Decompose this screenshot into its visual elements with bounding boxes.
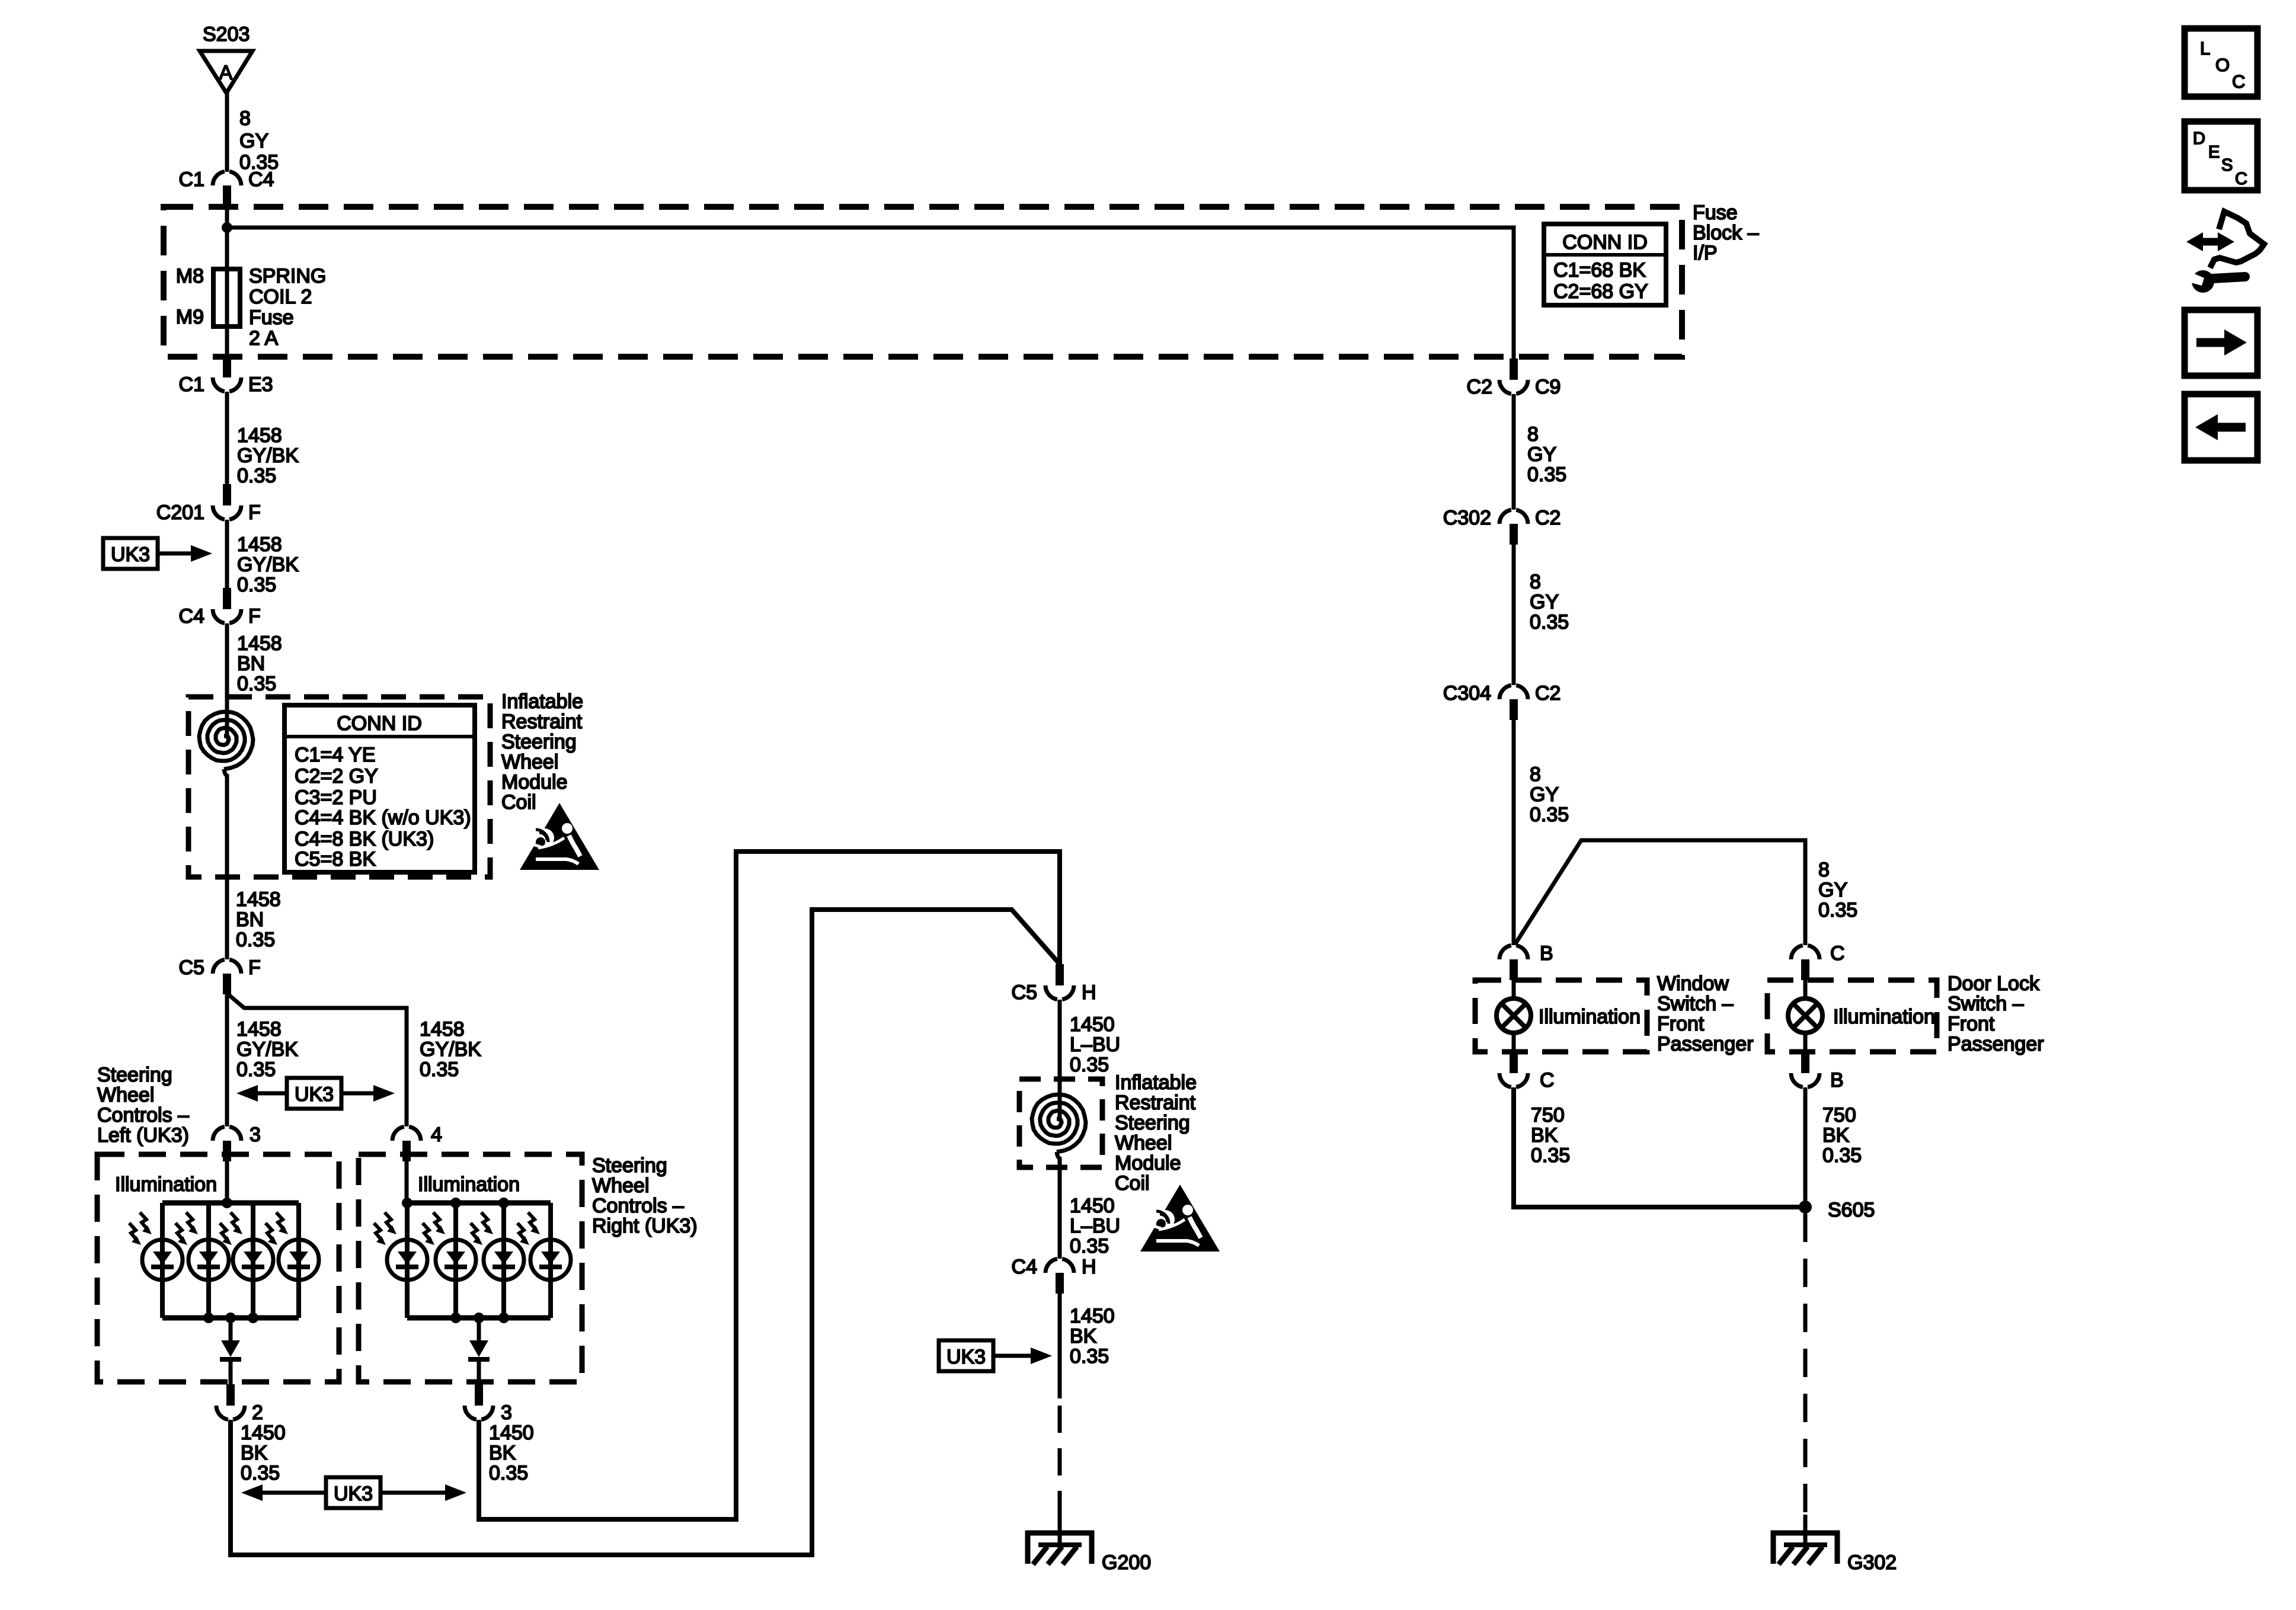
svg-text:Fuse: Fuse <box>249 306 294 329</box>
svg-text:O: O <box>2215 55 2230 75</box>
UK3 flag with arrow (middle) <box>939 1340 993 1371</box>
svg-text:C304: C304 <box>1443 682 1491 705</box>
svg-text:BK: BK <box>241 1442 268 1464</box>
svg-text:Door Lock: Door Lock <box>1948 972 2040 995</box>
airbag warning icon <box>1140 1185 1220 1251</box>
node junction dot <box>222 222 232 233</box>
svg-text:GY/BK: GY/BK <box>237 444 299 467</box>
svg-text:C1: C1 <box>179 373 204 396</box>
svg-text:C: C <box>1830 942 1845 965</box>
svg-text:E3: E3 <box>248 373 273 396</box>
svg-text:COIL 2: COIL 2 <box>249 286 312 308</box>
svg-text:GY/BK: GY/BK <box>420 1038 481 1061</box>
svg-text:0.35: 0.35 <box>237 673 276 695</box>
UK3 flag double arrow <box>287 1078 341 1109</box>
top bus wire (right) <box>407 1201 551 1206</box>
svg-text:Illumination: Illumination <box>1833 1006 1935 1028</box>
svg-text:0.35: 0.35 <box>1530 804 1569 826</box>
svg-text:0.35: 0.35 <box>236 929 275 951</box>
coil spiral (middle) <box>1032 1094 1086 1152</box>
svg-text:Controls –: Controls – <box>592 1195 684 1217</box>
LED lamps left <box>129 1212 183 1280</box>
wire window switch to S605 <box>1514 1087 1805 1207</box>
svg-text:I/P: I/P <box>1693 242 1718 264</box>
svg-text:Passenger: Passenger <box>1948 1033 2044 1055</box>
svg-text:B: B <box>1540 942 1553 965</box>
coil module dashed box <box>188 697 490 877</box>
svg-text:BN: BN <box>237 652 265 675</box>
connector C1 / C4 <box>213 171 241 206</box>
svg-text:C2: C2 <box>1535 507 1560 529</box>
svg-text:3: 3 <box>501 1401 512 1424</box>
svg-text:C2: C2 <box>1535 682 1560 705</box>
svg-text:A: A <box>219 62 233 84</box>
svg-text:C: C <box>1540 1069 1555 1092</box>
svg-text:CONN ID: CONN ID <box>337 712 422 735</box>
window switch dashed box <box>1475 980 1647 1052</box>
wire into block <box>225 206 229 270</box>
svg-text:Passenger: Passenger <box>1657 1033 1754 1055</box>
svg-text:0.35: 0.35 <box>420 1058 459 1081</box>
connector pin B (door lock bottom) <box>1791 1052 1819 1087</box>
connector C304 / C2 <box>1499 685 1528 720</box>
svg-text:0.35: 0.35 <box>241 1462 280 1484</box>
svg-text:C1=4 YE: C1=4 YE <box>295 744 375 766</box>
svg-text:1450: 1450 <box>1070 1013 1115 1036</box>
svg-text:Wheel: Wheel <box>1115 1132 1172 1154</box>
connector C2 / C9 <box>1499 359 1528 394</box>
connector pin 3 <box>213 1126 241 1161</box>
svg-text:C4=4 BK (w/o UK3): C4=4 BK (w/o UK3) <box>295 806 471 829</box>
svg-text:C302: C302 <box>1443 507 1491 529</box>
svg-text:D: D <box>2193 129 2205 148</box>
svg-text:Fuse: Fuse <box>1693 201 1738 224</box>
top bus wire <box>162 1201 299 1206</box>
svg-text:C2=68 GY: C2=68 GY <box>1553 280 1648 303</box>
branch wire to door lock switch <box>1515 840 1805 945</box>
svg-text:Front: Front <box>1657 1013 1705 1035</box>
RIGHT LED ARRAY: wire into array <box>405 1161 409 1203</box>
svg-text:F: F <box>248 605 261 628</box>
svg-text:C5: C5 <box>1012 981 1037 1004</box>
wrench/adjust icon <box>2185 212 2264 293</box>
svg-text:L–BU: L–BU <box>1070 1033 1120 1056</box>
svg-text:BK: BK <box>1070 1325 1097 1347</box>
connector pin C (window bottom) <box>1499 1052 1528 1087</box>
svg-text:1458: 1458 <box>237 424 282 447</box>
LED branch wires <box>162 1203 299 1318</box>
svg-text:GY: GY <box>239 130 268 152</box>
svg-text:GY: GY <box>1527 443 1556 466</box>
svg-text:Switch –: Switch – <box>1657 993 1734 1015</box>
wire door lock to S605 <box>1803 1087 1808 1207</box>
wire from S203 to C1 <box>225 93 229 172</box>
lamp door lock switch <box>1803 980 1808 1052</box>
wire <box>1512 545 1516 685</box>
next arrow icon <box>2185 310 2257 376</box>
svg-text:750: 750 <box>1822 1104 1856 1126</box>
svg-text:8: 8 <box>239 107 251 130</box>
svg-text:Illumination: Illumination <box>115 1173 217 1196</box>
svg-text:Illumination: Illumination <box>418 1173 520 1196</box>
svg-text:0.35: 0.35 <box>1531 1144 1570 1167</box>
svg-text:C: C <box>2235 169 2247 188</box>
coil module dashed box (middle) <box>1019 1079 1102 1167</box>
svg-text:1458: 1458 <box>236 888 281 911</box>
svg-text:0.35: 0.35 <box>237 465 276 487</box>
wire <box>225 392 229 484</box>
svg-text:8: 8 <box>1527 423 1539 446</box>
svg-text:2 A: 2 A <box>249 327 278 350</box>
svg-text:C4: C4 <box>248 168 274 191</box>
LED lamps right <box>374 1212 427 1280</box>
svg-text:Steering: Steering <box>501 731 577 753</box>
svg-text:C1=68 BK: C1=68 BK <box>1553 259 1646 281</box>
svg-text:C5: C5 <box>179 956 204 979</box>
svg-text:1458: 1458 <box>237 533 282 556</box>
svg-text:0.35: 0.35 <box>1530 611 1569 633</box>
svg-text:0.35: 0.35 <box>236 1058 276 1081</box>
svg-text:C5=8 BK: C5=8 BK <box>295 848 376 870</box>
svg-text:1458: 1458 <box>420 1018 465 1041</box>
splice triangle S203 A <box>200 51 252 93</box>
lamp window switch <box>1512 980 1516 1052</box>
door lock switch dashed box <box>1767 980 1937 1052</box>
right illumination dashed box <box>359 1154 582 1382</box>
wire to ground <box>1058 1294 1062 1398</box>
svg-text:C4=8 BK (UK3): C4=8 BK (UK3) <box>295 828 434 850</box>
svg-text:0.35: 0.35 <box>1818 899 1857 921</box>
airbag warning icon <box>520 803 599 870</box>
wire pin3 to riser <box>479 852 1060 1519</box>
svg-text:C2=2 GY: C2=2 GY <box>295 765 378 788</box>
LOC icon <box>2185 28 2257 97</box>
svg-text:0.35: 0.35 <box>1822 1144 1862 1167</box>
svg-text:Illumination: Illumination <box>1539 1006 1641 1028</box>
svg-text:GY: GY <box>1530 783 1559 806</box>
wire <box>225 623 229 738</box>
svg-text:Steering: Steering <box>592 1154 667 1177</box>
svg-text:C201: C201 <box>156 501 204 524</box>
svg-text:Switch –: Switch – <box>1948 993 2024 1015</box>
svg-text:C: C <box>2232 71 2245 92</box>
svg-text:BK: BK <box>489 1442 516 1464</box>
UK3 flag with arrow <box>103 538 158 569</box>
svg-text:Module: Module <box>1115 1152 1181 1174</box>
svg-text:CONN ID: CONN ID <box>1562 231 1648 254</box>
svg-text:M9: M9 <box>176 306 204 328</box>
svg-text:C3=2 PU: C3=2 PU <box>295 786 377 809</box>
connector C4 / H <box>1045 1259 1074 1294</box>
svg-text:3: 3 <box>250 1124 261 1146</box>
connector pin 2 <box>216 1384 245 1420</box>
wire into array <box>225 1161 229 1203</box>
svg-text:Coil: Coil <box>501 791 536 814</box>
svg-text:Steering: Steering <box>1115 1112 1190 1134</box>
bottom bus wire (right) <box>407 1315 551 1321</box>
svg-text:H: H <box>1082 981 1096 1004</box>
connector C201 / F <box>213 484 241 520</box>
svg-text:L–BU: L–BU <box>1070 1215 1120 1237</box>
svg-text:0.35: 0.35 <box>1527 463 1566 486</box>
svg-text:G200: G200 <box>1102 1551 1151 1574</box>
svg-text:0.35: 0.35 <box>489 1462 528 1484</box>
svg-text:GY: GY <box>1530 591 1559 613</box>
svg-text:B: B <box>1830 1069 1844 1092</box>
connector pin 4 <box>392 1126 421 1161</box>
wire <box>225 520 229 588</box>
svg-text:GY: GY <box>1818 879 1847 901</box>
svg-text:1450: 1450 <box>489 1422 534 1444</box>
svg-text:C4: C4 <box>1012 1256 1037 1278</box>
node dot <box>222 1198 232 1208</box>
wire bus across fuse block <box>227 228 1514 359</box>
svg-text:0.35: 0.35 <box>237 574 276 596</box>
svg-text:Coil: Coil <box>1115 1172 1150 1195</box>
svg-text:Module: Module <box>501 771 568 793</box>
svg-text:Controls –: Controls – <box>97 1104 189 1126</box>
output wire (right) <box>477 1318 481 1340</box>
svg-text:Restraint: Restraint <box>1115 1092 1196 1114</box>
svg-text:4: 4 <box>431 1124 442 1146</box>
svg-text:BK: BK <box>1822 1124 1850 1147</box>
left illumination dashed box <box>97 1154 339 1382</box>
LED branch wires (right) <box>407 1203 551 1318</box>
svg-text:Inflatable: Inflatable <box>1115 1071 1197 1094</box>
svg-text:GY/BK: GY/BK <box>237 553 299 576</box>
svg-text:0.35: 0.35 <box>1070 1054 1109 1076</box>
svg-text:Wheel: Wheel <box>592 1174 649 1197</box>
svg-text:S605: S605 <box>1828 1199 1875 1221</box>
svg-text:Front: Front <box>1948 1013 1995 1035</box>
svg-text:Left (UK3): Left (UK3) <box>97 1124 189 1147</box>
svg-text:S: S <box>2221 156 2233 175</box>
svg-text:M8: M8 <box>176 265 204 287</box>
splice S605 <box>1799 1201 1812 1214</box>
svg-text:Wheel: Wheel <box>97 1084 154 1106</box>
connector C4 / F <box>213 588 241 623</box>
connector pin B (window switch) <box>1499 945 1528 980</box>
svg-text:BN: BN <box>236 908 264 931</box>
svg-text:1450: 1450 <box>1070 1195 1115 1217</box>
bottom bus wire <box>162 1315 299 1321</box>
DESC icon <box>2185 121 2257 190</box>
node dots bottom bus (right) <box>450 1313 461 1323</box>
wire left branch down <box>225 994 229 1126</box>
node dot right array input <box>402 1198 412 1208</box>
back arrow icon <box>2185 394 2257 460</box>
wire right branch <box>228 994 407 1126</box>
svg-text:8: 8 <box>1818 859 1830 881</box>
svg-text:F: F <box>248 956 261 979</box>
connector C302 / C2 <box>1499 510 1528 545</box>
svg-text:1458: 1458 <box>237 632 282 655</box>
wire <box>1512 394 1516 510</box>
svg-text:SPRING: SPRING <box>249 265 326 287</box>
svg-text:Steering: Steering <box>97 1064 172 1086</box>
svg-text:1450: 1450 <box>1070 1305 1115 1327</box>
svg-text:Inflatable: Inflatable <box>501 690 583 713</box>
svg-text:C1: C1 <box>179 168 204 191</box>
svg-text:750: 750 <box>1531 1104 1565 1126</box>
CONN ID table (fuse block) <box>1544 224 1666 305</box>
svg-text:S203: S203 <box>203 23 250 46</box>
svg-text:BK: BK <box>1531 1124 1558 1147</box>
svg-text:C4: C4 <box>179 605 204 628</box>
wire <box>477 1362 481 1384</box>
wire down to switch <box>1512 720 1516 945</box>
svg-text:8: 8 <box>1530 763 1541 786</box>
svg-text:C9: C9 <box>1535 376 1560 398</box>
svg-text:E: E <box>2208 143 2220 162</box>
svg-text:Restraint: Restraint <box>501 710 583 733</box>
connector pin C (door lock switch) <box>1791 945 1819 980</box>
svg-text:8: 8 <box>1530 571 1541 593</box>
wire <box>1058 1000 1062 1121</box>
svg-text:L: L <box>2200 38 2210 59</box>
dashed wire to G302 <box>1803 1214 1808 1515</box>
svg-text:Window: Window <box>1657 972 1729 995</box>
connector C5 / F <box>213 959 241 994</box>
wire pin2 to riser <box>231 910 1060 1555</box>
node dots bottom bus <box>203 1313 214 1323</box>
svg-text:2: 2 <box>252 1401 263 1424</box>
connector pin 3 (bottom) <box>465 1384 493 1420</box>
svg-text:1458: 1458 <box>236 1018 282 1041</box>
ground G302 <box>1771 1531 1840 1564</box>
svg-text:0.35: 0.35 <box>1070 1235 1109 1257</box>
diode (right array) <box>469 1340 488 1357</box>
fuse block dashed outline <box>164 207 1682 357</box>
svg-text:GY/BK: GY/BK <box>236 1038 298 1061</box>
CONN ID table (coil) <box>284 705 475 872</box>
UK3 flag double arrow (bottom) <box>326 1477 380 1508</box>
svg-text:C2: C2 <box>1467 376 1492 398</box>
fuse M8/M9 SPRING COIL 2 Fuse 2A <box>213 269 240 327</box>
connector C1 / E3 <box>213 356 241 392</box>
node dots top bus (right) <box>450 1198 461 1208</box>
svg-text:Block –: Block – <box>1693 222 1759 244</box>
diode <box>221 1340 240 1357</box>
connector C5 / H <box>1045 964 1074 1000</box>
svg-text:Wheel: Wheel <box>501 751 558 773</box>
svg-text:F: F <box>248 501 261 524</box>
svg-text:G302: G302 <box>1847 1551 1897 1574</box>
coil spiral <box>199 712 253 769</box>
output wire with diode <box>229 1318 233 1340</box>
ground G200 <box>1025 1531 1094 1564</box>
svg-text:H: H <box>1082 1256 1096 1278</box>
svg-text:Right (UK3): Right (UK3) <box>592 1215 698 1237</box>
svg-text:1450: 1450 <box>241 1422 286 1444</box>
svg-text:0.35: 0.35 <box>1070 1345 1109 1368</box>
